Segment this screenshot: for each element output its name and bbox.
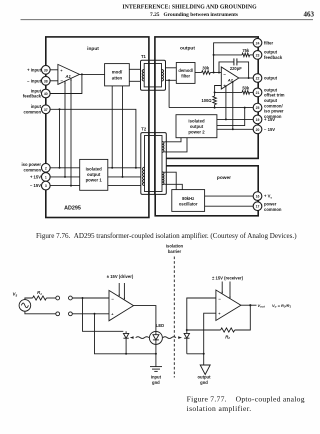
- wire Vs bottom rail: [25, 311, 56, 314]
- pin 40: [41, 89, 50, 98]
- wire demod to 30k: [195, 72, 202, 74]
- node demod common junction: [168, 79, 170, 81]
- svg-text:−: −: [218, 296, 221, 301]
- wire A2 output to pin22: [239, 77, 254, 79]
- wire T1 to demod top: [166, 67, 177, 69]
- pin 21: [253, 88, 262, 97]
- pin 16: [253, 192, 262, 201]
- svg-text:463: 463: [304, 11, 315, 19]
- resistor 30k: [202, 71, 211, 75]
- svg-text:± 15V (receiver): ± 15V (receiver): [212, 276, 244, 281]
- svg-text:− 15V: − 15V: [264, 127, 275, 132]
- receiver supply stub 2: [229, 282, 231, 299]
- wire common branch to power2 box: [217, 108, 245, 126]
- node row junctions: [59, 167, 137, 187]
- input section box: [46, 37, 149, 218]
- svg-text:offset trim: offset trim: [264, 93, 285, 98]
- svg-text:Vo = R2/R1: Vo = R2/R1: [272, 303, 292, 309]
- wire A2 supply drop 1: [225, 87, 227, 120]
- svg-text:T1: T1: [141, 54, 147, 59]
- demodulator box demod/filter: [176, 63, 195, 84]
- svg-text:A1: A1: [65, 74, 72, 79]
- svg-text:output: output: [87, 172, 101, 177]
- svg-text:75k: 75k: [242, 48, 250, 53]
- wire mod/atten to T1 top: [129, 68, 144, 70]
- svg-text:power 1: power 1: [86, 178, 103, 183]
- wire receiver - input to PD2: [187, 298, 216, 330]
- svg-text:demod/: demod/: [178, 68, 193, 73]
- svg-text:30k: 30k: [202, 66, 210, 71]
- pin 39: [41, 65, 50, 74]
- svg-text:oscillator: oscillator: [179, 202, 198, 207]
- capacitor 220pF: [218, 58, 250, 79]
- wire +15V row pin19: [217, 118, 253, 120]
- svg-text:± 15V (driver): ± 15V (driver): [107, 274, 134, 279]
- node 50k junction: [214, 91, 216, 93]
- resistor 100 ohm: [213, 96, 217, 105]
- driver supply stub 2: [123, 283, 125, 299]
- resistor R2: [221, 328, 235, 332]
- svg-text:− input: − input: [27, 78, 41, 83]
- pin 37: [41, 105, 50, 114]
- node PD2 top: [186, 329, 188, 331]
- wire power2 box to T2 winding top: [164, 138, 181, 142]
- ground input earth symbol: [150, 367, 162, 372]
- wire to output ground: [203, 354, 205, 365]
- svg-text:17: 17: [256, 205, 260, 209]
- svg-text:gnd: gnd: [152, 380, 160, 385]
- node supply2: [232, 128, 234, 130]
- svg-text:1: 1: [45, 175, 47, 179]
- pin 23: [253, 51, 262, 60]
- transformer T2: [141, 133, 167, 195]
- wire A2 supply drop 2: [232, 82, 234, 129]
- svg-text:iso power: iso power: [21, 162, 41, 167]
- svg-text:input: input: [31, 104, 42, 109]
- node output gnd: [203, 353, 205, 355]
- svg-text:output: output: [264, 76, 278, 81]
- svg-text:output: output: [264, 98, 278, 103]
- svg-text:R2: R2: [225, 335, 230, 341]
- wire iso power common row2: [50, 167, 144, 169]
- isolated output power 2 box: [176, 115, 217, 138]
- svg-text:T2: T2: [141, 127, 147, 132]
- svg-text:gnd: gnd: [200, 380, 208, 385]
- wire T1 to demod bottom (common): [166, 79, 177, 81]
- modulator box mod/atten: [105, 64, 130, 86]
- transformer T1: [141, 60, 166, 90]
- svg-text:isolation: isolation: [166, 243, 184, 248]
- page header: [21, 5, 315, 20]
- svg-text:+ 15V: + 15V: [30, 174, 41, 179]
- svg-text:20: 20: [256, 128, 260, 132]
- svg-text:24: 24: [256, 41, 260, 45]
- pin 17: [253, 202, 262, 211]
- svg-text:mod/: mod/: [112, 70, 123, 75]
- wire mod/atten supply drop 1: [111, 86, 113, 168]
- svg-text:output: output: [197, 375, 211, 380]
- svg-text:iso power: iso power: [264, 109, 284, 114]
- svg-text:output: output: [264, 87, 278, 92]
- node pd1 bottom: [125, 353, 127, 355]
- svg-text:output: output: [180, 46, 195, 52]
- wire mod/atten supply drop 2: [122, 86, 124, 177]
- wire receiver + input to gnd: [204, 313, 216, 354]
- wire 50k row to pin21: [215, 91, 242, 93]
- svg-text:output: output: [264, 50, 278, 55]
- svg-text:input: input: [87, 46, 99, 52]
- driver supply stub 1: [118, 283, 120, 296]
- wire terminal to driver + input: [72, 313, 109, 315]
- svg-text:+ Vs: + Vs: [264, 194, 272, 200]
- svg-text:isolated: isolated: [188, 119, 205, 124]
- photodiode PD2: [184, 330, 189, 354]
- node led gnd: [155, 353, 157, 355]
- svg-text:23: 23: [256, 53, 260, 57]
- terminal top left: [56, 296, 60, 300]
- output section box: [155, 37, 258, 158]
- svg-text:input: input: [151, 375, 162, 380]
- LED D1: [149, 331, 162, 344]
- terminal bottom right: [69, 312, 73, 316]
- isolated output power 1 box: [80, 159, 108, 190]
- wire photodiode feedback drop: [83, 298, 124, 331]
- wire LED to ground: [155, 344, 157, 366]
- svg-text:filter: filter: [264, 40, 273, 45]
- light arrow right: [163, 337, 176, 339]
- pin 38: [41, 76, 50, 85]
- svg-text:37: 37: [44, 108, 48, 112]
- FIGURE 7.76: [46, 37, 258, 218]
- node filter/75k junction: [213, 54, 215, 56]
- wire mod/atten to T1 bottom: [129, 80, 144, 82]
- svg-text:21: 21: [256, 91, 260, 95]
- wire common drop to gnd rail: [95, 314, 156, 354]
- node driver summing: [82, 297, 84, 299]
- op-amp driver: [109, 290, 134, 320]
- resistor 75k: [242, 53, 250, 57]
- svg-text:Vout: Vout: [258, 303, 266, 309]
- svg-text:power 2: power 2: [188, 130, 205, 135]
- node on common rail: [59, 108, 61, 110]
- wire Vs top to R1: [25, 298, 33, 300]
- svg-text:filter: filter: [181, 73, 190, 78]
- svg-text:Figure 7.76. AD295 transforme: Figure 7.76. AD295 transformer-coupled i…: [36, 232, 297, 240]
- wire power2 box to T2 winding bottom: [164, 138, 187, 152]
- svg-text:INTERFERENCE: SHIELDING AND GR: INTERFERENCE: SHIELDING AND GROUNDING: [122, 5, 257, 11]
- power section box: [155, 166, 258, 216]
- wire driver output to LED: [134, 306, 156, 332]
- svg-text:barrier: barrier: [168, 249, 182, 254]
- svg-text:38: 38: [44, 79, 48, 83]
- wire +15V row1: [50, 176, 144, 178]
- light arrow left: [136, 337, 149, 339]
- wire -15V row3: [50, 185, 144, 187]
- pin 3: [41, 181, 50, 190]
- wire 75k left: [214, 54, 242, 56]
- pin 2: [41, 163, 50, 172]
- wire 75k to pin23: [250, 54, 254, 56]
- svg-text:7.25 Grounding between instr: 7.25 Grounding between instruments: [150, 12, 238, 18]
- wire oscillator to pin16: [205, 195, 254, 197]
- wire terminal to driver - input: [72, 297, 109, 299]
- source Vs: [19, 300, 31, 312]
- svg-text:feedback: feedback: [23, 94, 42, 99]
- pin 20: [253, 125, 262, 134]
- ground output arrow symbol: [200, 365, 210, 375]
- wire A1 output to mod/atten: [80, 73, 105, 75]
- pin 25: [253, 103, 262, 112]
- svg-text:Vs: Vs: [13, 292, 18, 298]
- terminal bottom left: [56, 312, 60, 316]
- svg-text:AD295: AD295: [64, 206, 81, 212]
- svg-text:19: 19: [256, 118, 260, 122]
- svg-text:−: −: [60, 79, 63, 84]
- wire A1 supply drop 1: [64, 81, 66, 177]
- wire pin38 to A1 - input: [50, 80, 58, 82]
- wire filter pin24 to summing node: [214, 43, 254, 73]
- photodiode PD1: [123, 331, 128, 354]
- op-amp receiver: [216, 290, 241, 321]
- svg-text:power: power: [264, 201, 277, 206]
- resistor R1: [33, 296, 47, 300]
- terminal top right: [69, 296, 73, 300]
- wire receiver output: [241, 304, 257, 306]
- isolation barrier dashed line: [173, 257, 175, 378]
- svg-text:22: 22: [256, 77, 260, 81]
- svg-text:common: common: [264, 207, 282, 212]
- svg-text:common/: common/: [264, 103, 283, 108]
- svg-text:isolation amplifier.: isolation amplifier.: [187, 404, 252, 413]
- svg-text:− 15V: − 15V: [30, 183, 41, 188]
- wire input feedback pin40 to A1 output: [50, 74, 82, 93]
- svg-text:2: 2: [45, 166, 47, 170]
- pin 22: [253, 74, 262, 83]
- node A1 output junction: [81, 73, 83, 75]
- svg-text:LED: LED: [156, 323, 164, 328]
- pin 1: [41, 173, 50, 182]
- node common branch: [244, 107, 246, 109]
- svg-text:power: power: [217, 175, 231, 181]
- resistor 50k: [242, 91, 250, 95]
- svg-text:50k: 50k: [242, 86, 250, 91]
- svg-text:39: 39: [44, 68, 48, 72]
- svg-text:common: common: [24, 110, 42, 115]
- node driver common: [94, 313, 96, 315]
- wire 100 ohm to common row: [214, 105, 216, 108]
- svg-text:25: 25: [256, 106, 260, 110]
- svg-text:common: common: [24, 168, 42, 173]
- svg-text:−: −: [223, 72, 226, 77]
- receiver supply stub 1: [221, 282, 223, 294]
- node 100ohm common: [214, 107, 216, 109]
- wire output common row pin25: [169, 107, 253, 109]
- wire oscillator to pin17: [205, 205, 254, 207]
- wire -15V row pin20: [217, 128, 253, 130]
- svg-text:−: −: [111, 296, 114, 301]
- svg-text:+ 15V: + 15V: [264, 117, 275, 122]
- wire oscillator to T2 winding top: [164, 172, 176, 189]
- svg-text:atten: atten: [112, 75, 123, 80]
- wire R1 to terminal: [46, 297, 55, 299]
- wire oscillator to T2 winding bottom: [164, 184, 182, 189]
- svg-text:3: 3: [45, 184, 47, 188]
- oscillator box 80kHz: [172, 190, 205, 212]
- wire common riser from row25: [168, 80, 170, 107]
- node supply1: [225, 118, 227, 120]
- wire R2 row: [187, 329, 221, 331]
- op-amp A1: [58, 64, 80, 84]
- node summing junction: [213, 72, 215, 74]
- svg-text:80kHz: 80kHz: [182, 196, 194, 201]
- svg-text:220pF: 220pF: [230, 66, 242, 71]
- wire pin39 to A1 + input: [50, 69, 58, 71]
- svg-text:16: 16: [256, 195, 260, 199]
- wire input common pin37 rail: [50, 109, 136, 168]
- wire common drop to row2: [59, 109, 61, 168]
- wire A2 + input to 100 ohm: [215, 86, 222, 97]
- gnd rail right: [187, 353, 204, 355]
- wire R2 to output: [235, 305, 251, 330]
- svg-text:Figure 7.77. Opto-coupled a: Figure 7.77. Opto-coupled analog: [187, 394, 305, 403]
- svg-text:output: output: [190, 124, 204, 129]
- pin 24: [253, 38, 262, 47]
- wire 30k to A2 - input: [210, 72, 221, 74]
- svg-text:100Ω: 100Ω: [201, 98, 212, 103]
- pin 19: [253, 115, 262, 124]
- node output: [249, 304, 251, 306]
- op-amp A2: [221, 67, 239, 89]
- svg-text:R1: R1: [37, 290, 42, 296]
- svg-text:input: input: [31, 88, 42, 93]
- svg-text:feedback: feedback: [264, 55, 283, 60]
- svg-text:40: 40: [44, 92, 48, 96]
- svg-text:isolated: isolated: [86, 167, 103, 172]
- wire A1 supply drop 2: [70, 78, 72, 185]
- svg-text:+ input: + input: [27, 67, 41, 72]
